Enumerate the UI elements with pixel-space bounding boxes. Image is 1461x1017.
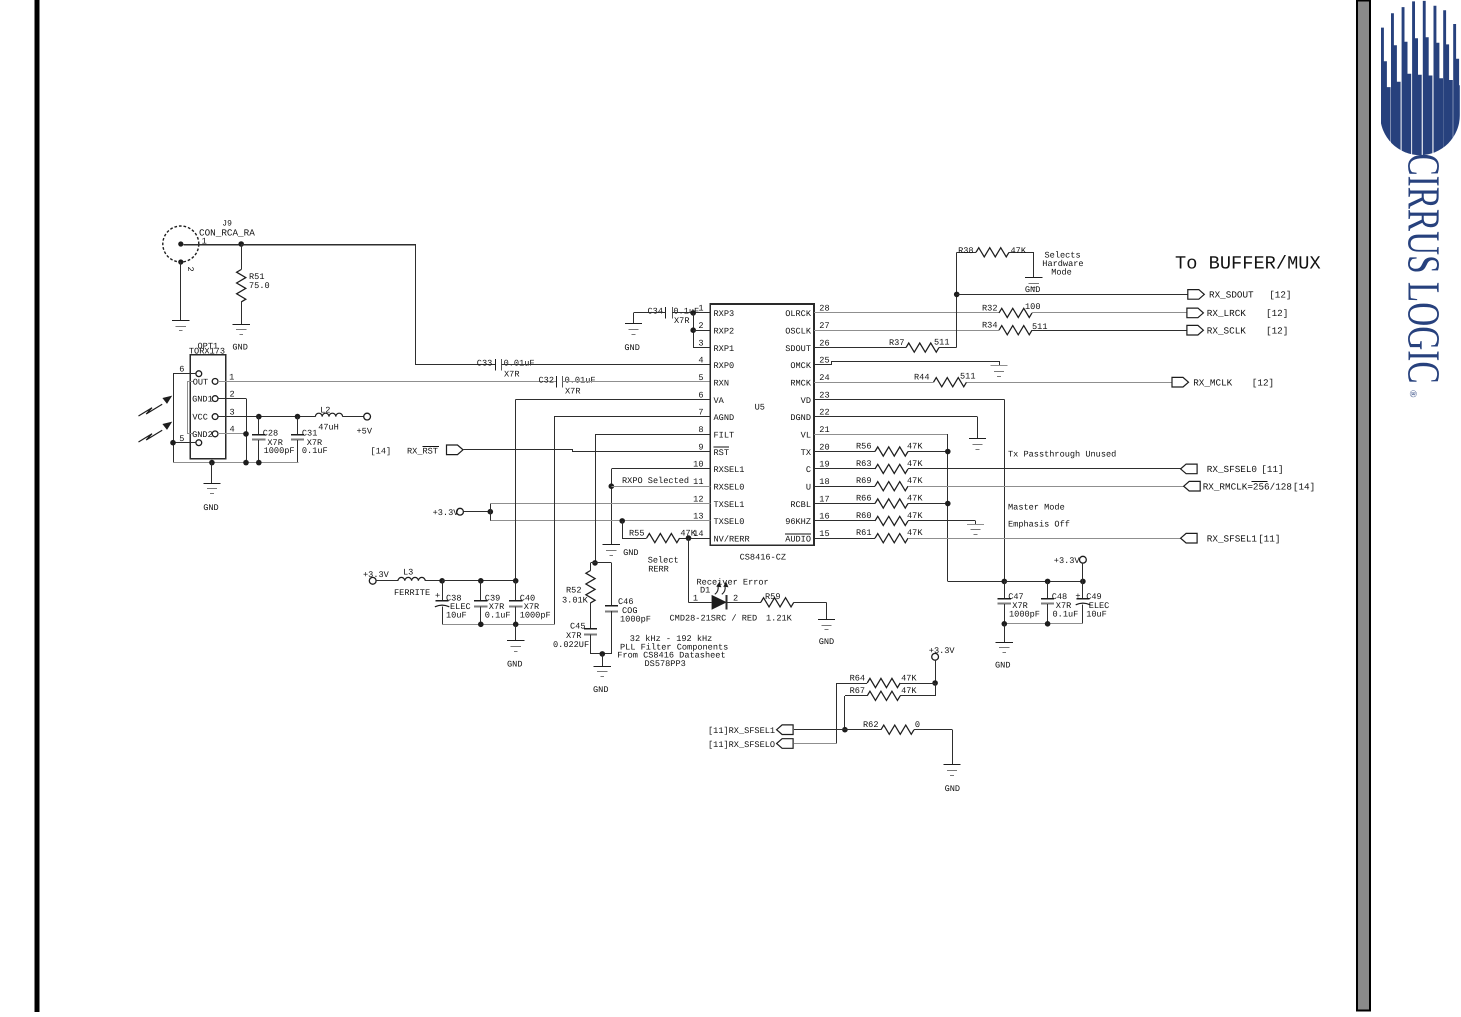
svg-text:[11]RX_SFSELO: [11]RX_SFSELO xyxy=(708,740,775,750)
wire J9 node to RXP0 drop xyxy=(241,244,415,246)
annotation Select RERR xyxy=(648,556,679,575)
U5 pin 5 RXN xyxy=(698,373,729,389)
svg-text:C45: C45 xyxy=(570,622,585,632)
U5 pin 22 DGND xyxy=(790,408,829,424)
U5 pin 4 RXP0 xyxy=(698,356,734,372)
svg-text:+3.3V: +3.3V xyxy=(363,570,390,580)
junction rail/GND stub xyxy=(209,460,215,466)
svg-text:2: 2 xyxy=(698,321,703,331)
wire to RXP1 pin xyxy=(693,347,710,349)
svg-text:+3.3V: +3.3V xyxy=(1054,556,1081,566)
svg-text:23: 23 xyxy=(819,390,829,400)
svg-text:C34: C34 xyxy=(648,307,663,317)
svg-text:VCC: VCC xyxy=(192,413,207,423)
capacitor C31 0.1uF X7R xyxy=(291,417,328,463)
Cirrus Logic logo mark xyxy=(1381,1,1461,160)
svg-text:AUDIO: AUDIO xyxy=(785,535,811,545)
svg-text:RX_SFSEL0: RX_SFSEL0 xyxy=(1207,464,1257,475)
right gray sidebar xyxy=(1357,1,1370,1011)
wire R64 vertical xyxy=(836,683,838,744)
IC U5 CS8416-CZ body xyxy=(710,304,814,562)
wire R67 vertical xyxy=(844,696,846,730)
svg-text:GND: GND xyxy=(624,343,639,353)
wire GND2 stub xyxy=(218,433,246,435)
svg-text:R32: R32 xyxy=(982,303,997,313)
wire to RXP2 pin xyxy=(693,330,710,332)
svg-text:12: 12 xyxy=(693,494,703,504)
wire +3.3V to L3 xyxy=(376,580,398,582)
svg-text:[12]: [12] xyxy=(1269,290,1291,301)
resistor R51 75.0 xyxy=(237,244,270,324)
wire VL pin21 xyxy=(814,434,948,436)
OPT1 pin 3 label xyxy=(230,407,235,417)
U5 pin 15 AUDIO xyxy=(785,529,830,545)
wire R55 to D1 xyxy=(689,538,712,602)
svg-text:1: 1 xyxy=(229,372,234,382)
wire down to R55 xyxy=(622,521,624,538)
svg-text:Mode: Mode xyxy=(1051,268,1072,278)
tag RX_SFSEL1 xyxy=(1181,533,1198,543)
wire rail to ground xyxy=(1004,624,1006,642)
svg-text:+: + xyxy=(1075,592,1080,602)
wire J9 pin2 to ground xyxy=(180,262,182,321)
junction RX_SDOUT xyxy=(954,292,960,298)
svg-text:RXP3: RXP3 xyxy=(714,309,735,319)
LED D1 CMD28-21SRC xyxy=(670,577,769,623)
svg-text:R63: R63 xyxy=(856,459,871,469)
svg-text:4: 4 xyxy=(230,424,235,434)
net label RX_LRCK [12] xyxy=(1207,308,1289,319)
svg-text:R44: R44 xyxy=(914,373,929,383)
svg-text:47K: 47K xyxy=(907,511,923,521)
ground below R62 xyxy=(943,765,960,794)
wire C34 to RXP3 xyxy=(672,312,710,314)
svg-text:RXP1: RXP1 xyxy=(714,344,735,354)
svg-text:TORX173: TORX173 xyxy=(189,347,225,357)
wire VA ground rail xyxy=(442,624,554,626)
wire GND1 vertical xyxy=(246,399,248,463)
svg-text:47K: 47K xyxy=(907,476,923,486)
svg-text:R55: R55 xyxy=(629,528,644,538)
junction C39 bottom xyxy=(478,622,484,628)
svg-text:DS578PP3: DS578PP3 xyxy=(645,659,686,669)
J9 pin 1 xyxy=(202,236,207,246)
wire FILT pin8 xyxy=(595,434,710,436)
ground below C47 xyxy=(995,643,1013,671)
wire DGND pin22 xyxy=(814,416,978,418)
resistor R69 47K xyxy=(814,476,923,491)
svg-text:[14]: [14] xyxy=(1293,482,1315,493)
capacitor C33 0.01uF X7R xyxy=(415,359,534,380)
power node +3.3V (R64) xyxy=(929,646,956,660)
wire +3.3V to TXSEL node xyxy=(463,511,490,513)
ground below C40 xyxy=(507,641,524,670)
wire R61 to RX_SFSEL1 xyxy=(908,538,1181,540)
svg-text:SDOUT: SDOUT xyxy=(785,344,811,354)
svg-text:15: 15 xyxy=(819,529,829,539)
svg-text:+3.3V: +3.3V xyxy=(433,508,460,518)
U5 pin 26 SDOUT xyxy=(785,338,829,354)
U5 pin 10 RXSEL1 xyxy=(693,460,744,476)
svg-text:TXSEL1: TXSEL1 xyxy=(714,500,745,510)
svg-text:3: 3 xyxy=(698,338,703,348)
net label RX_SCLK [12] xyxy=(1207,326,1289,337)
svg-text:4: 4 xyxy=(698,356,703,366)
svg-text:Master Mode: Master Mode xyxy=(1008,503,1065,513)
svg-text:R37: R37 xyxy=(889,338,904,348)
svg-text:0.1uF: 0.1uF xyxy=(1053,610,1079,620)
wire R66 to bus xyxy=(908,503,948,505)
U5 pin 1 RXP3 xyxy=(698,304,734,320)
wire DGND vertical xyxy=(977,417,979,439)
svg-text:21: 21 xyxy=(819,425,829,435)
OPT1 pin 1 label xyxy=(229,372,234,382)
U5 pin 23 VD xyxy=(801,390,830,406)
svg-text:96KHZ: 96KHZ xyxy=(785,517,811,527)
svg-text:OUT: OUT xyxy=(193,377,208,387)
net label RX_SDOUT [12] xyxy=(1209,290,1292,301)
ground below PLL filter xyxy=(593,667,611,696)
U5 pin 7 AGND xyxy=(698,408,734,424)
svg-text:100: 100 xyxy=(1025,302,1040,312)
wire R44 to RX_MCLK xyxy=(967,382,1173,384)
junction R55/D1 xyxy=(686,535,692,541)
wire TXSEL vertical xyxy=(490,504,492,521)
svg-text:47K: 47K xyxy=(907,459,923,469)
resistor R52 3.01K xyxy=(562,563,595,629)
ground OMCK xyxy=(990,366,1007,377)
U5 pin 11 RXSEL0 xyxy=(693,477,744,493)
U5 pin 24 RMCK xyxy=(790,373,829,389)
wire FILT vertical xyxy=(595,434,597,563)
net label [11]RX_SFSEL1 xyxy=(708,726,775,736)
junction rail/C28 xyxy=(256,460,262,466)
junction C49 top xyxy=(1080,579,1086,585)
wire TXSEL1 pin12 xyxy=(490,503,710,505)
net label RX_SFSEL0 [11] xyxy=(1207,464,1284,475)
svg-text:26: 26 xyxy=(819,338,829,348)
wire R59 to ground xyxy=(826,602,828,619)
annotation Emphasis Off xyxy=(1008,519,1070,529)
wire PLL bottom rail xyxy=(591,653,612,655)
svg-text:VA: VA xyxy=(714,396,725,406)
svg-text:GND: GND xyxy=(819,637,834,647)
svg-text:OMCK: OMCK xyxy=(790,361,811,371)
ground DGND xyxy=(969,439,986,450)
wire +3.3V to rail xyxy=(1082,563,1084,581)
svg-text:R59: R59 xyxy=(765,592,780,602)
svg-text:R60: R60 xyxy=(856,511,871,521)
power node +3.3V (L3) xyxy=(363,570,390,584)
tag RX_SDOUT xyxy=(1188,290,1205,300)
junction at J9/R51 xyxy=(238,241,244,247)
OPT1 pin 5 label xyxy=(179,434,184,444)
wire RX_SFSEL1 to R62 xyxy=(794,729,881,731)
LED emission arrows xyxy=(715,582,729,594)
capacitor C46 1000pF COG xyxy=(605,597,651,654)
wire C47-C49 ground rail xyxy=(1004,623,1083,625)
svg-text:1000pF: 1000pF xyxy=(520,611,551,621)
wire R63 to RX_SFSEL0 xyxy=(908,468,1181,470)
svg-text:C32: C32 xyxy=(539,376,554,386)
wire RMCK pin24 xyxy=(814,382,933,384)
capacitor C34 0.1uF X7R xyxy=(648,307,700,326)
svg-text:[11]: [11] xyxy=(1261,464,1283,475)
U5 pin 14 NV/RERR xyxy=(693,529,749,545)
U5 pin 27 OSCLK xyxy=(785,321,829,337)
wire node to R52 xyxy=(591,562,596,564)
svg-text:®: ® xyxy=(1407,390,1418,398)
wire +3.3V rail xyxy=(1004,581,1083,583)
wire R69 to RX_RMCLK xyxy=(908,486,1184,488)
D1 pin 2 label xyxy=(733,594,738,604)
wire OLRCK pin28 xyxy=(814,312,999,314)
svg-text:GND: GND xyxy=(232,343,247,353)
junction TXSEL0/R55 xyxy=(619,518,625,524)
wire GND1 stub xyxy=(218,398,246,400)
power node +3.3V (TXSEL) xyxy=(433,508,464,518)
U5 pin 28 OLRCK xyxy=(785,304,829,320)
D1 pin 1 label xyxy=(693,594,698,604)
wire D1 to R59 xyxy=(727,602,761,604)
junction FILT node xyxy=(592,560,598,566)
junction VCC/C31 xyxy=(295,414,301,420)
wire L2 to +5V xyxy=(343,416,364,418)
wire OPT1 ground rail xyxy=(173,462,299,464)
capacitor C45 0.022UF X7R xyxy=(553,622,597,654)
svg-text:R64: R64 xyxy=(850,673,865,683)
capacitor C47 1000pF X7R xyxy=(998,581,1040,623)
tag RX_SFSEL0 xyxy=(1181,464,1198,474)
tag RX_SCLK xyxy=(1187,325,1204,335)
tag RX_MCLK xyxy=(1172,377,1189,387)
svg-text:511: 511 xyxy=(934,337,949,347)
svg-text:X7R: X7R xyxy=(674,316,689,326)
wire OUT to RXN xyxy=(218,381,556,383)
annotation Tx Passthrough Unused xyxy=(1008,449,1116,459)
junction GND2 xyxy=(243,431,249,437)
svg-text:RXP2: RXP2 xyxy=(714,327,735,337)
resistor R34 511 xyxy=(982,321,1047,335)
resistor R66 47K xyxy=(814,494,923,509)
wire node to C46 xyxy=(595,563,612,606)
ground at J9 pin2 xyxy=(172,321,189,331)
ground RXSEL xyxy=(603,545,639,558)
U5 pin 6 VA xyxy=(698,390,724,406)
svg-text:75.0: 75.0 xyxy=(249,281,270,291)
wire RX_RST to pin9 xyxy=(464,450,711,452)
wire C32 to RXN pin5 xyxy=(563,381,711,383)
U5 pin 12 TXSEL1 xyxy=(693,494,744,510)
annotation PLL filter note xyxy=(617,634,728,669)
capacitor C32 0.01uF X7R xyxy=(539,376,596,397)
U5 pin 9 RST xyxy=(698,442,729,458)
svg-text:+: + xyxy=(435,591,440,601)
svg-text:20: 20 xyxy=(819,442,829,452)
svg-text:GND: GND xyxy=(623,548,638,558)
ground below OPT1 xyxy=(203,484,220,514)
svg-text:RXSEL0: RXSEL0 xyxy=(714,483,745,493)
wire TXSEL0 pin13 xyxy=(490,520,710,522)
svg-text:RXN: RXN xyxy=(714,379,729,389)
resistor R37 511 xyxy=(889,337,949,352)
svg-text:R34: R34 xyxy=(982,321,997,331)
wire bus to rail xyxy=(948,581,1005,583)
wire RXSEL vertical xyxy=(611,469,613,545)
svg-text:C: C xyxy=(806,465,811,475)
power node +5V xyxy=(357,413,373,436)
svg-text:R38: R38 xyxy=(958,246,973,256)
svg-text:FILT: FILT xyxy=(714,431,735,441)
junction C48 bottom xyxy=(1045,621,1051,627)
svg-text:GND: GND xyxy=(203,503,218,513)
svg-text:[12]: [12] xyxy=(1252,378,1274,389)
annotation Selects Hardware Mode xyxy=(1042,251,1083,278)
svg-text:Receiver Error: Receiver Error xyxy=(697,577,769,587)
svg-text:10uF: 10uF xyxy=(446,611,467,621)
svg-text:RX_SDOUT: RX_SDOUT xyxy=(1209,290,1254,301)
wire RXSEL1 pin10 xyxy=(611,468,710,470)
svg-text:C33: C33 xyxy=(477,359,492,369)
svg-text:RX_RST: RX_RST xyxy=(407,447,438,457)
wire OMCK pin25 xyxy=(815,362,1000,366)
ground below R51 xyxy=(232,325,249,353)
wire R62 to ground xyxy=(914,730,953,765)
wire VCC line xyxy=(218,416,315,418)
annotation Master Mode xyxy=(1008,503,1065,513)
wire R56 to bus xyxy=(908,451,948,453)
light input arrows xyxy=(139,396,173,442)
junction VCC/C28 xyxy=(256,414,262,420)
wire VD vertical xyxy=(1004,400,1006,582)
junction R64 node xyxy=(932,680,938,686)
wire R67 up to node xyxy=(935,683,937,696)
wire +3.3V to R64 node xyxy=(935,660,937,683)
svg-text:3: 3 xyxy=(230,407,235,417)
junction rail/GND1 xyxy=(243,460,249,466)
resistor R32 100 xyxy=(982,302,1040,318)
junction R66 bus xyxy=(945,501,951,507)
svg-text:U: U xyxy=(806,483,811,493)
svg-text:Emphasis Off: Emphasis Off xyxy=(1008,519,1070,529)
svg-text:To BUFFER/MUX: To BUFFER/MUX xyxy=(1175,254,1321,275)
wire AGND pin7 xyxy=(554,416,710,418)
annotation RXPO Selected xyxy=(622,476,689,486)
inductor L3 FERRITE xyxy=(394,568,430,598)
resistor R64 47K xyxy=(836,673,935,687)
svg-text:+3.3V: +3.3V xyxy=(929,646,956,656)
svg-text:X7R: X7R xyxy=(565,386,580,396)
power node +3.3V (C49) xyxy=(1054,556,1087,566)
junction C40 top xyxy=(513,578,519,584)
wire VA vertical xyxy=(515,400,517,581)
svg-text:GND1: GND1 xyxy=(192,395,213,405)
resistor R56 47K xyxy=(814,442,923,457)
svg-text:0.1uF: 0.1uF xyxy=(302,446,328,456)
svg-text:R66: R66 xyxy=(856,494,871,504)
net label RX_RMCLK=256/128 [14] xyxy=(1203,482,1316,493)
wire R37 to SDOUT node xyxy=(939,347,957,349)
svg-text:1: 1 xyxy=(693,594,698,604)
J9 pin 2 xyxy=(185,267,195,272)
wire AGND vertical xyxy=(554,417,556,624)
wire R32 to RX_LRCK xyxy=(1032,312,1187,314)
svg-text:TX: TX xyxy=(801,448,811,458)
wire SDOUT pin26 xyxy=(814,347,906,349)
svg-text:0: 0 xyxy=(915,720,920,730)
svg-text:RCBL: RCBL xyxy=(790,500,811,510)
tag RX_SFSELO (bottom) xyxy=(777,739,794,749)
tag RX_RST xyxy=(447,445,464,455)
svg-text:R52: R52 xyxy=(566,586,581,596)
svg-text:Tx Passthrough Unused: Tx Passthrough Unused xyxy=(1008,449,1116,459)
resistor R44 511 xyxy=(914,371,975,387)
capacitor C40 1000pF X7R xyxy=(509,581,551,625)
U5 pin 20 TX xyxy=(801,442,830,458)
tag RX_SFSEL1 (bottom) xyxy=(777,725,794,735)
wire R34 to RX_SCLK xyxy=(1032,330,1187,332)
svg-text:U5: U5 xyxy=(755,403,765,413)
wire VA pin6 xyxy=(516,399,711,401)
U5 pin 16 96KHZ xyxy=(785,512,829,528)
svg-text:L2: L2 xyxy=(320,406,330,416)
junction TXSEL xyxy=(488,509,494,515)
wire OPT1 pin5 stub xyxy=(173,442,196,444)
capacitor C49 10uF ELEC xyxy=(1075,581,1109,623)
svg-text:X7R: X7R xyxy=(504,369,519,379)
svg-text:27: 27 xyxy=(819,321,829,331)
tag RX_LRCK xyxy=(1187,308,1204,318)
svg-text:47uH: 47uH xyxy=(318,423,339,433)
svg-text:R69: R69 xyxy=(856,476,871,486)
wire VD pin23 xyxy=(814,399,1004,401)
svg-text:0.1uF: 0.1uF xyxy=(485,611,511,621)
svg-text:24: 24 xyxy=(819,373,829,383)
svg-text:RXP0: RXP0 xyxy=(714,361,735,371)
net label [14] RX_RST xyxy=(371,447,440,457)
inductor L2 47uH xyxy=(315,406,342,433)
U5 pin 3 RXP1 xyxy=(698,338,734,354)
svg-text:1000pF: 1000pF xyxy=(620,614,651,624)
svg-text:11: 11 xyxy=(693,477,703,487)
svg-text:0.022UF: 0.022UF xyxy=(553,640,589,650)
resistor R67 47K xyxy=(845,686,935,700)
OPT1 pin 2 label xyxy=(230,389,235,399)
svg-text:RX_SCLK: RX_SCLK xyxy=(1207,326,1246,337)
svg-text:GND: GND xyxy=(945,784,960,794)
svg-text:[12]: [12] xyxy=(1266,326,1288,337)
svg-text:47K: 47K xyxy=(1011,246,1027,256)
svg-text:+5V: +5V xyxy=(357,426,373,436)
svg-text:TXSEL0: TXSEL0 xyxy=(714,517,745,527)
svg-text:RX_RMCLK=256/128: RX_RMCLK=256/128 xyxy=(1203,482,1292,493)
svg-text:47K: 47K xyxy=(901,673,917,683)
wire VA top rail xyxy=(442,580,516,582)
svg-text:AGND: AGND xyxy=(714,413,735,423)
resistor R62 0 xyxy=(863,720,920,734)
svg-text:RMCK: RMCK xyxy=(790,379,811,389)
svg-text:RXSEL1: RXSEL1 xyxy=(714,465,745,475)
wire SDOUT vertical xyxy=(956,252,958,347)
wire R60 to ground xyxy=(908,521,976,525)
svg-text:RX_SFSEL1: RX_SFSEL1 xyxy=(1207,534,1258,545)
junction RXP3 tie xyxy=(690,310,696,316)
OPT1 pin 6 label xyxy=(179,365,184,375)
junction R56 bus xyxy=(945,449,951,455)
wire RX_SFSELO to R64 xyxy=(794,743,836,745)
capacitor C38 10uF ELEC xyxy=(435,581,471,625)
connector J9 CON_RCA_RA xyxy=(163,219,255,264)
